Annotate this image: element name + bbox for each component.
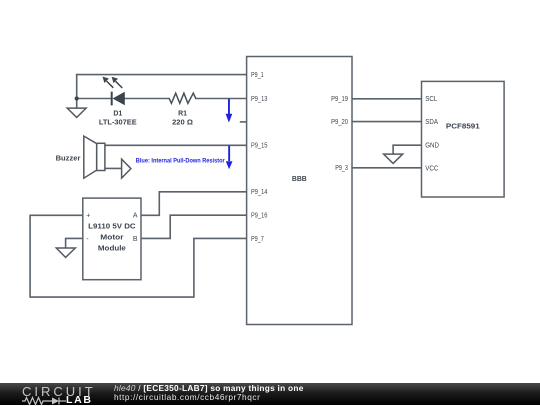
svg-text:Motor: Motor [100,235,124,242]
wire P9_19 to SCL [352,98,422,100]
svg-text:Blue: Internal Pull-Down Resis: Blue: Internal Pull-Down Resistor [136,157,225,164]
buzzer SP1 [84,136,105,178]
wire P9_3 to VCC [352,167,422,169]
svg-text:P9_7: P9_7 [251,236,264,243]
ground G2 (motor minus) [56,248,75,257]
wire buzzer to P9_15 [105,144,247,146]
module PCF8591 [422,81,505,197]
svg-text:PCF8591: PCF8591 [446,124,480,131]
footer bar [0,383,540,405]
svg-text:LTL-307EE: LTL-307EE [99,119,137,126]
wire buzzer bottom [105,167,121,169]
svg-text:Buzzer: Buzzer [56,156,81,163]
junction dot node LED [75,96,79,100]
svg-text:P9_20: P9_20 [331,119,348,126]
svg-text:+: + [86,213,90,220]
LED D1 [103,77,125,106]
svg-text:P9_14: P9_14 [251,189,267,196]
wire motor A to P9_14 [141,192,247,216]
svg-text:L9110 5V DC: L9110 5V DC [88,224,136,231]
svg-text:BBB: BBB [292,176,307,183]
svg-text:SCL: SCL [425,96,437,103]
logo resistor [22,398,52,405]
wire PCF GND [393,145,421,154]
wire resistor to P9_13 [196,98,247,100]
svg-text:R1: R1 [178,110,187,117]
annotation blue arrow 2 [226,146,233,170]
annotation blue arrow 1 [226,99,233,123]
wire left vertical to ground [76,75,78,109]
svg-text:D1: D1 [113,110,122,117]
svg-text:P9_3: P9_3 [335,165,348,172]
footer title [114,383,304,393]
wire P9_20 to SDA [352,121,422,123]
module BBB [247,57,352,325]
svg-text:SDA: SDA [425,119,438,126]
svg-text:220 Ω: 220 Ω [172,119,193,126]
svg-text:GND: GND [425,143,439,150]
svg-text:P9_15: P9_15 [251,143,267,150]
wire motor B to P9_16 [141,215,247,238]
svg-text:P9_1: P9_1 [251,72,264,79]
ground G1 (LED) [67,108,86,117]
logo diode [52,398,59,405]
svg-text:P9_19: P9_19 [331,96,348,103]
wire motor minus [66,238,83,248]
wire LED to resistor [125,98,170,100]
svg-text:Module: Module [98,246,126,253]
resistor R1 [169,93,196,103]
module L9110 motor driver [83,198,141,280]
wire top rail P9_1 [77,74,247,76]
svg-text:P9_13: P9_13 [251,96,267,103]
svg-text:B: B [133,236,138,243]
footer url [114,392,260,402]
ground G3 (PCF8591 GND) [384,154,403,163]
pin stub unlabeled P9 left [241,121,247,123]
wire LED row left [77,98,112,100]
svg-text:A: A [133,213,138,220]
wire motor plus to bottom rail to P9_7 [30,215,247,297]
logo circuitlab [22,384,96,399]
flag arrow buzzer output [122,159,131,178]
svg-text:P9_16: P9_16 [251,213,267,220]
svg-text:VCC: VCC [425,166,438,173]
